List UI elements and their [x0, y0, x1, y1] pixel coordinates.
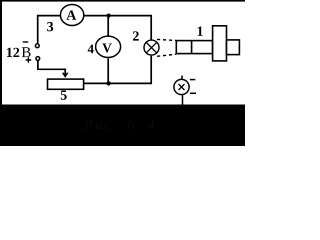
label 5	[61, 91, 67, 100]
dashed projection line top	[157, 39, 176, 40]
rheostat 5 body	[48, 79, 84, 89]
black page area below figure	[0, 105, 245, 147]
plus sign	[26, 57, 32, 63]
minus sign	[23, 41, 29, 43]
rheostat slider arrow	[63, 73, 68, 77]
wire voltmeter top lead	[107, 16, 109, 36]
lamp tick bottom right	[190, 92, 196, 94]
label 12 В	[7, 48, 19, 57]
lamp 2 symbol	[144, 40, 159, 55]
ammeter A (3)	[60, 5, 83, 26]
figure frame top border	[0, 0, 245, 2]
label 3	[47, 22, 53, 31]
white figure background	[0, 0, 245, 146]
wire ammeter right to corner and down to lamp 2	[83, 16, 151, 40]
label 1	[198, 27, 203, 36]
battery terminal bottom	[36, 57, 40, 61]
lamp bottom lead	[182, 95, 184, 105]
figure frame left border	[0, 0, 2, 105]
device 1 flange	[213, 26, 227, 61]
junction node bottom	[107, 81, 111, 85]
voltmeter V (4)	[96, 36, 121, 57]
lamp top lead	[181, 76, 183, 80]
label 2	[133, 31, 139, 40]
device 1 end cap	[227, 40, 240, 55]
device 1 body	[176, 26, 239, 61]
label 4	[88, 45, 94, 54]
lamp tick top right	[190, 79, 196, 81]
wire battery plus terminal down, right, to rheostat slider	[38, 61, 65, 76]
wire voltmeter bottom lead	[107, 58, 109, 83]
indicator lamp bottom-right	[174, 76, 196, 105]
junction node top	[107, 14, 111, 18]
wire rheostat right to corner and up to lamp 2 bottom	[84, 56, 152, 84]
wire battery top terminal up and right to ammeter	[38, 16, 61, 44]
caption Рис. 6.4	[84, 119, 154, 129]
dashed projection line bottom	[157, 54, 176, 56]
battery terminal top	[35, 44, 39, 48]
